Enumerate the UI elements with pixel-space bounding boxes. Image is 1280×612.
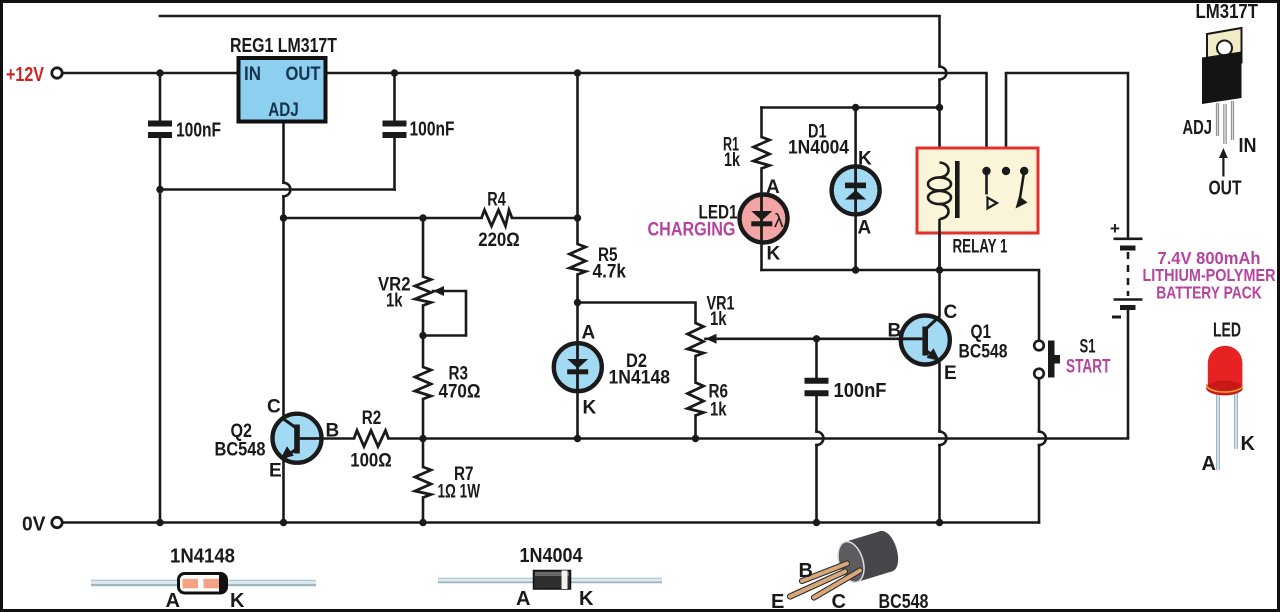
wire VR2 wiper loop bbox=[423, 291, 466, 336]
svg-text:K: K bbox=[230, 590, 245, 612]
LED package drawing bbox=[1202, 320, 1256, 476]
svg-text:IN: IN bbox=[1239, 135, 1257, 157]
transistor Q2 BC548 bbox=[273, 414, 322, 463]
node D1 top bbox=[852, 104, 859, 111]
node C3 ground bbox=[813, 519, 820, 526]
svg-text:C: C bbox=[832, 591, 846, 612]
arrow VR1 wiper bbox=[706, 334, 717, 344]
arrow VR2 wiper bbox=[433, 286, 444, 296]
wire cap1 bottom to 0V rail bbox=[159, 138, 162, 523]
wire R2 line across to battery minus bbox=[389, 310, 1129, 439]
svg-text:A: A bbox=[166, 590, 180, 612]
svg-text:K: K bbox=[1241, 433, 1256, 455]
svg-text:100nF: 100nF bbox=[834, 380, 887, 402]
BC548 package drawing bbox=[771, 528, 929, 612]
svg-text:1N4004: 1N4004 bbox=[788, 138, 849, 159]
BC548 legs bbox=[790, 564, 860, 598]
node R5/D2/VR1 bbox=[574, 299, 581, 306]
svg-text:K: K bbox=[583, 398, 597, 419]
svg-text:K: K bbox=[858, 149, 872, 170]
node rail/C2 bbox=[391, 69, 398, 76]
wire Q2 base to R2 bbox=[300, 437, 354, 440]
LM317T legs bbox=[1218, 101, 1233, 144]
wire R2 line to R7 bbox=[422, 439, 425, 468]
wire VR2 to R3 bbox=[422, 306, 425, 368]
svg-text:B: B bbox=[326, 421, 340, 442]
svg-text:K: K bbox=[767, 244, 781, 265]
svg-text:C: C bbox=[944, 302, 958, 323]
wire Q2 emitter to 0V rail bbox=[282, 458, 285, 523]
svg-text:+12V: +12V bbox=[6, 64, 45, 86]
node R7 ground bbox=[419, 519, 426, 526]
node C1 ground bbox=[156, 519, 163, 526]
svg-text:100nF: 100nF bbox=[410, 119, 455, 141]
svg-text:A: A bbox=[766, 177, 780, 198]
node R3/R7 bbox=[419, 435, 426, 442]
node D2 cathode bbox=[574, 435, 581, 442]
svg-text:A: A bbox=[1202, 453, 1216, 475]
svg-text:Q1: Q1 bbox=[971, 322, 992, 343]
wire cap3 top stub bbox=[815, 339, 818, 378]
wire cap2 top to +12V rail bbox=[393, 73, 396, 120]
resistor R6 1k vertical bbox=[688, 383, 704, 416]
svg-text:R4: R4 bbox=[487, 190, 506, 211]
svg-text:λ: λ bbox=[774, 211, 784, 232]
wire D2 anode stub bbox=[576, 303, 579, 344]
1N4004 body bbox=[534, 571, 571, 590]
svg-text:1Ω 1W: 1Ω 1W bbox=[438, 482, 481, 503]
wire relay coil column hop over +12V rail bbox=[940, 67, 947, 80]
svg-text:1k: 1k bbox=[724, 150, 740, 171]
wire ADJ to VR2 node bbox=[282, 196, 285, 218]
regulator REG1 box bbox=[239, 58, 326, 122]
wire Q1 emitter down to hop bbox=[938, 364, 941, 432]
wire ADJ hop over ground link bbox=[284, 183, 291, 197]
svg-text:CHARGING: CHARGING bbox=[648, 220, 736, 241]
svg-text:B: B bbox=[888, 321, 902, 342]
svg-text:BC548: BC548 bbox=[215, 440, 266, 461]
RESISTOR-SYMBOLS bbox=[354, 137, 770, 498]
svg-text:BC548: BC548 bbox=[879, 591, 929, 612]
wire R3 to R2 line bbox=[422, 399, 425, 439]
svg-text:LM317T: LM317T bbox=[1196, 1, 1259, 23]
svg-text:470Ω: 470Ω bbox=[439, 382, 481, 403]
wire cap3 to 0V rail bbox=[815, 445, 818, 522]
svg-text:E: E bbox=[944, 363, 957, 384]
wire S1 bottom stub bbox=[1038, 379, 1041, 432]
LED legs bbox=[1218, 393, 1236, 470]
relay core bar bbox=[955, 161, 960, 218]
wire Q1 base line bbox=[706, 337, 902, 340]
wire relay coil column down to coil bbox=[938, 80, 941, 162]
svg-text:A: A bbox=[858, 218, 872, 239]
wire R7 to 0V rail bbox=[422, 498, 425, 523]
terminal +12V bbox=[52, 68, 62, 78]
node rail/R5 column bbox=[574, 69, 581, 76]
svg-text:1N4004: 1N4004 bbox=[520, 545, 584, 567]
svg-text:START: START bbox=[1066, 357, 1111, 378]
diode D1 1N4004 bbox=[832, 166, 880, 214]
svg-text:ADJ: ADJ bbox=[1183, 117, 1213, 139]
resistor R4 220 horizontal bbox=[482, 210, 513, 226]
node D1 bottom bbox=[852, 266, 859, 273]
svg-text:+: + bbox=[1110, 219, 1120, 238]
svg-text:R2: R2 bbox=[362, 408, 382, 429]
resistor R1 1k vertical bbox=[754, 137, 770, 169]
terminal 0V bbox=[52, 517, 62, 527]
1N4148 lead bbox=[91, 580, 316, 587]
relay contact C with blade bbox=[1020, 167, 1028, 175]
svg-text:K: K bbox=[579, 588, 594, 610]
wire R5 bottom to D2 junction bbox=[576, 275, 579, 303]
switch S1 bbox=[1034, 341, 1060, 379]
svg-text:1N4148: 1N4148 bbox=[609, 368, 671, 389]
svg-text:B: B bbox=[799, 560, 813, 582]
svg-text:BATTERY PACK: BATTERY PACK bbox=[1156, 283, 1262, 303]
wire regulated column x577 bbox=[576, 73, 579, 244]
label battery minus bbox=[1112, 316, 1121, 319]
wire ADJ pin down to hop bbox=[282, 122, 285, 183]
LED1 charging indicator bbox=[740, 195, 788, 243]
node ADJ junction bbox=[280, 214, 287, 221]
node R6 bottom bbox=[692, 435, 699, 442]
diode D2 1N4148 bbox=[554, 343, 602, 391]
resistor R3 470 vertical bbox=[415, 367, 431, 399]
wire VR2 top stub bbox=[422, 218, 425, 277]
resistor R2 100 horizontal bbox=[354, 431, 389, 447]
resistor R7 1ohm vertical bbox=[415, 467, 431, 498]
node VR2 wiper bottom bbox=[419, 332, 426, 339]
svg-text:4.7k: 4.7k bbox=[593, 262, 627, 283]
wire VR1 to R6 bbox=[694, 356, 697, 383]
wire R1 to LED1 anode bbox=[760, 169, 763, 196]
svg-text:A: A bbox=[582, 323, 596, 344]
svg-text:C: C bbox=[267, 397, 281, 418]
wire cap1 top stub bbox=[159, 73, 162, 121]
wire D2 cathode to R2 line bbox=[576, 392, 579, 439]
wire R1 top stub bbox=[760, 108, 763, 138]
wire top rail from input to relay coil column bbox=[160, 16, 940, 67]
node Q2 emitter ground bbox=[280, 519, 287, 526]
svg-text:RELAY 1: RELAY 1 bbox=[953, 237, 1008, 258]
relay coil bbox=[928, 163, 951, 271]
svg-text:1k: 1k bbox=[710, 400, 727, 421]
wire S1 hop over R2 line bbox=[1039, 432, 1046, 446]
wire ADJ node down to Q2 collector bbox=[282, 218, 285, 419]
svg-text:BC548: BC548 bbox=[959, 342, 1008, 363]
svg-text:S1: S1 bbox=[1080, 337, 1096, 358]
svg-text:OUT: OUT bbox=[1209, 178, 1242, 200]
svg-text:100Ω: 100Ω bbox=[350, 451, 392, 472]
LM317T body bbox=[1202, 52, 1242, 105]
node Q1 emitter ground bbox=[936, 519, 943, 526]
relay contact B bbox=[1002, 167, 1010, 175]
potentiometer VR2 body bbox=[415, 277, 431, 306]
svg-text:A: A bbox=[516, 588, 530, 610]
wire Q1 emitter to 0V rail bbox=[938, 445, 941, 522]
LM317T package drawing bbox=[1183, 1, 1259, 200]
wire cap3 hop over R2 line bbox=[817, 432, 824, 446]
svg-text:LED: LED bbox=[1213, 320, 1241, 342]
wire VR2 node line y218 bbox=[284, 217, 482, 220]
wire S1 bottom to hop bbox=[1038, 445, 1041, 522]
wire R1/D1 top branch bbox=[762, 106, 940, 109]
wire R4 right to x577 column bbox=[512, 217, 578, 220]
1N4148 body bbox=[179, 574, 227, 594]
LED body bbox=[1208, 346, 1243, 390]
svg-text:ADJ: ADJ bbox=[268, 100, 299, 121]
node R4/R5 bbox=[574, 214, 581, 221]
wire 0V rail bbox=[62, 521, 1039, 524]
wire cap2 bottom to ground link bbox=[393, 138, 396, 190]
battery BT1 bbox=[1114, 239, 1143, 308]
wire VR1 top link from D2 node bbox=[578, 303, 696, 324]
svg-text:220Ω: 220Ω bbox=[478, 230, 520, 251]
node coil/R1D1 bbox=[936, 104, 943, 111]
svg-text:REG1 LM317T: REG1 LM317T bbox=[230, 35, 337, 57]
resistor R5 4.7k vertical bbox=[570, 244, 586, 275]
svg-text:IN: IN bbox=[244, 64, 261, 85]
capacitor C3 100nF plates bbox=[805, 381, 829, 394]
node ground link left bbox=[156, 186, 163, 193]
svg-text:100nF: 100nF bbox=[176, 120, 221, 142]
svg-text:1N4148: 1N4148 bbox=[170, 546, 235, 568]
potentiometer VR1 body bbox=[688, 323, 704, 356]
svg-text:E: E bbox=[269, 461, 282, 482]
svg-text:E: E bbox=[771, 591, 784, 612]
1N4004 lead bbox=[438, 578, 662, 584]
transistor Q1 BC548 bbox=[901, 316, 950, 365]
1N4004 package drawing bbox=[438, 545, 662, 610]
wire ground link y190 bbox=[160, 188, 395, 191]
node +12V/C1 bbox=[156, 69, 163, 76]
CAPACITORS bbox=[148, 124, 829, 394]
wire cap3 bottom to hop bbox=[815, 396, 818, 431]
wire D1 bottom stub bbox=[854, 214, 857, 270]
node coil bottom / Q1 collector bbox=[936, 266, 943, 273]
LM317T arrow bbox=[1222, 154, 1224, 177]
wire relay contact B to battery plus bbox=[1006, 73, 1128, 237]
wire LED1 cathode down bbox=[760, 242, 763, 270]
wire R6 to R2 line bbox=[694, 416, 697, 439]
wire +12V rail bbox=[62, 73, 987, 167]
capacitor C2 100nF plates bbox=[383, 124, 407, 136]
svg-text:OUT: OUT bbox=[286, 64, 321, 85]
svg-text:1k: 1k bbox=[386, 291, 403, 312]
LM317T tab bbox=[1207, 28, 1242, 69]
wire LED/D1 bottom rail to S1 top bbox=[762, 270, 1040, 341]
wire Q1 emitter hop over R2 line bbox=[940, 432, 947, 446]
1N4148 package drawing bbox=[91, 546, 316, 612]
BC548 body bbox=[833, 528, 902, 586]
wire relay coil to Q1 collector bbox=[938, 218, 941, 316]
node cap3 top bbox=[813, 335, 820, 342]
capacitor C1 100nF plates bbox=[148, 124, 172, 136]
svg-text:1k: 1k bbox=[710, 309, 727, 330]
relay RELAY1 bbox=[917, 148, 1038, 270]
node VR2 top bbox=[419, 214, 426, 221]
wire D1 top stub bbox=[854, 108, 857, 168]
relay contact A bbox=[982, 167, 990, 175]
svg-text:0V: 0V bbox=[22, 514, 46, 536]
